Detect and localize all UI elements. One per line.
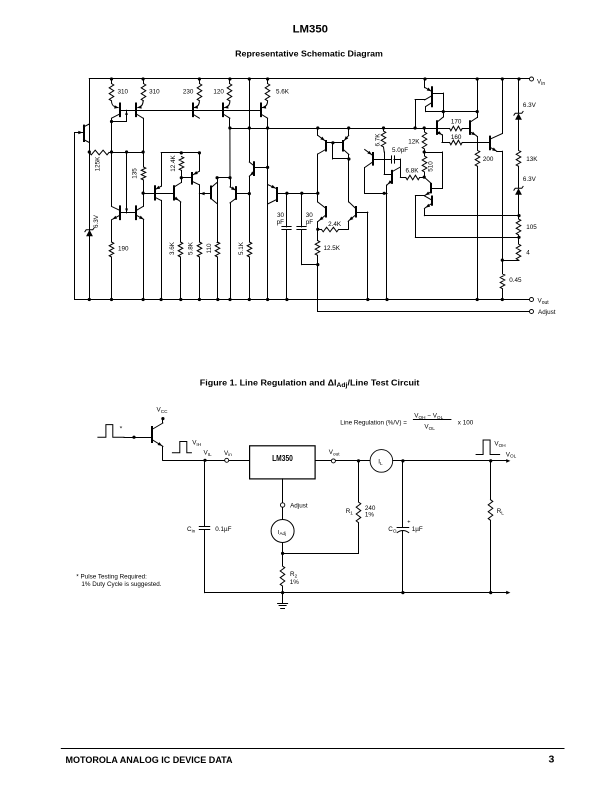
svg-text:2.4K: 2.4K	[328, 221, 342, 228]
svg-text:110: 110	[206, 243, 213, 254]
svg-text:1µF: 1µF	[412, 526, 423, 533]
svg-text:30: 30	[306, 212, 314, 219]
svg-text:pF: pF	[277, 219, 285, 226]
svg-text:105: 105	[526, 224, 537, 231]
svg-text:230: 230	[183, 89, 194, 96]
svg-text:5.6K: 5.6K	[276, 89, 290, 96]
svg-text:Adjust: Adjust	[538, 309, 556, 316]
svg-text:Representative Schematic Diagr: Representative Schematic Diagram	[235, 50, 383, 59]
svg-text:170: 170	[451, 118, 462, 125]
svg-text:310: 310	[118, 89, 129, 96]
svg-text:LM350: LM350	[272, 454, 293, 463]
svg-text:510: 510	[427, 161, 434, 172]
svg-text:Figure 1. Line Regulation and: Figure 1. Line Regulation and ΔIAdj/Line…	[200, 378, 420, 390]
svg-text:+: +	[407, 519, 410, 525]
svg-text:13K: 13K	[526, 156, 538, 163]
svg-text:190: 190	[118, 246, 129, 253]
svg-text:5.8K: 5.8K	[188, 241, 195, 255]
svg-text:6.3V: 6.3V	[523, 102, 537, 109]
svg-text:12.4K: 12.4K	[170, 154, 177, 171]
svg-text:120: 120	[213, 89, 224, 96]
svg-text:30: 30	[277, 212, 285, 219]
svg-text:135: 135	[131, 168, 138, 179]
svg-text:160: 160	[451, 134, 462, 141]
svg-text:200: 200	[483, 156, 494, 163]
svg-text:0.1µF: 0.1µF	[215, 526, 231, 533]
svg-text:x 100: x 100	[458, 419, 474, 426]
svg-text:IAdj: IAdj	[278, 530, 286, 536]
svg-text:*: *	[120, 426, 123, 433]
svg-text:1%: 1%	[290, 579, 300, 586]
svg-text:12.5K: 12.5K	[324, 245, 341, 252]
svg-text:1%: 1%	[365, 512, 375, 519]
svg-text:125K: 125K	[94, 156, 101, 172]
svg-text:MOTOROLA ANALOG IC DEVICE DATA: MOTOROLA ANALOG IC DEVICE DATA	[66, 755, 233, 766]
svg-text:12K: 12K	[408, 138, 420, 145]
svg-text:5.1K: 5.1K	[238, 241, 245, 255]
svg-text:* Pulse Testing Required:: * Pulse Testing Required:	[76, 574, 147, 581]
svg-text:3: 3	[549, 754, 555, 766]
svg-text:pF: pF	[306, 219, 314, 226]
svg-text:310: 310	[149, 89, 160, 96]
svg-text:0.45: 0.45	[509, 277, 522, 284]
svg-text:Adjust: Adjust	[290, 502, 308, 509]
svg-text:6.8K: 6.8K	[406, 168, 420, 175]
svg-text:6.7K: 6.7K	[374, 133, 381, 147]
svg-text:6.3V: 6.3V	[93, 214, 100, 228]
svg-text:3.6K: 3.6K	[169, 241, 176, 255]
svg-text:1% Duty Cycle is suggested.: 1% Duty Cycle is suggested.	[81, 581, 161, 588]
svg-text:5.0pF: 5.0pF	[392, 147, 408, 154]
svg-text:4: 4	[526, 250, 530, 257]
svg-text:6.3V: 6.3V	[523, 176, 537, 183]
svg-text:LM350: LM350	[293, 24, 328, 36]
svg-text:Line Regulation (%/V) =: Line Regulation (%/V) =	[340, 419, 407, 426]
